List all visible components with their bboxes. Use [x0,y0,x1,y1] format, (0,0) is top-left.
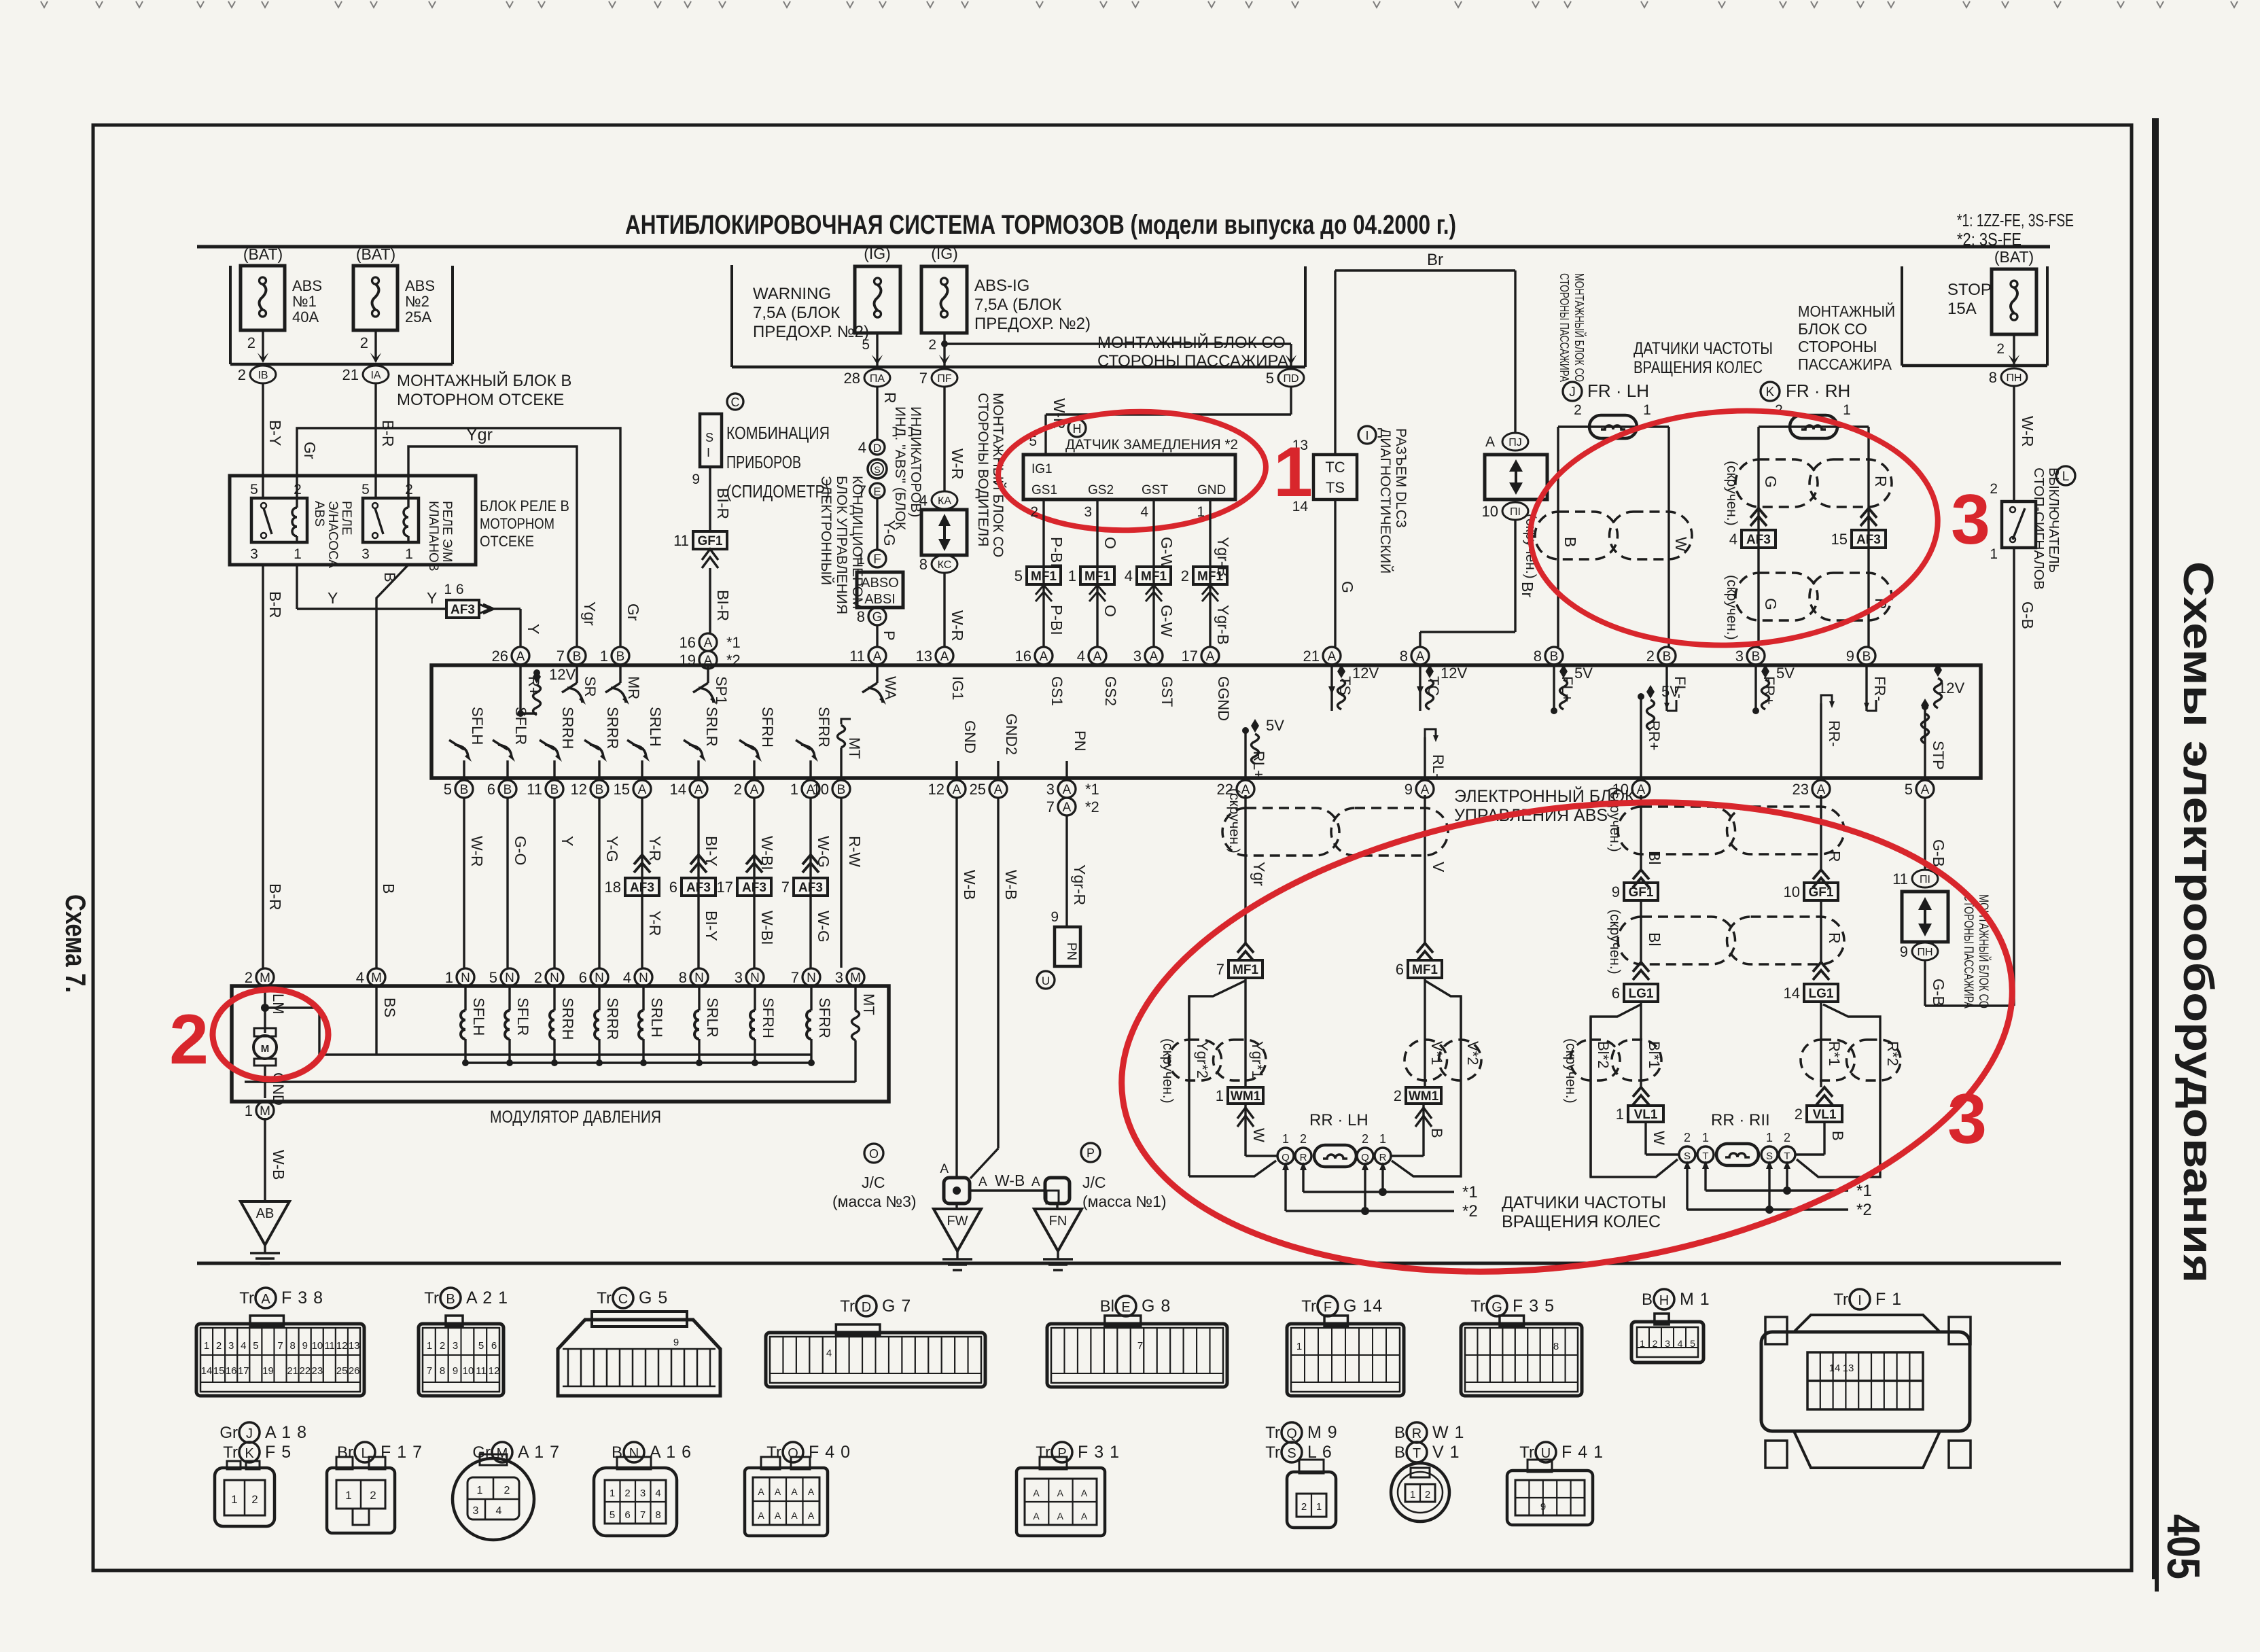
svg-text:СТОРОНЫ ПАССАЖИРА: СТОРОНЫ ПАССАЖИРА [1097,352,1288,370]
svg-text:B-Y: B-Y [266,420,284,446]
svg-text:4: 4 [826,1348,832,1359]
svg-text:GF1: GF1 [1629,885,1654,900]
svg-text:F 5: F 5 [265,1443,292,1462]
svg-text:O: O [788,1446,798,1461]
svg-text:GND: GND [961,720,978,754]
wire S1 down [709,467,711,531]
svg-text:A: A [808,1510,815,1521]
svg-text:Ygr*1: Ygr*1 [1249,1041,1266,1078]
svg-text:12: 12 [336,1340,348,1352]
svg-text:*1: 1ZZ-FE, 3S-FSE: *1: 1ZZ-FE, 3S-FSE [1957,210,2074,230]
svg-text:ПF: ПF [937,373,952,385]
svg-text:7: 7 [1137,1340,1143,1352]
driver block double arrow connector [921,510,967,555]
svg-text:LG1: LG1 [1629,987,1654,1001]
svg-text:12V: 12V [1352,665,1379,682]
svg-text:АНТИБЛОКИРОВОЧНАЯ СИСТЕМА ТОРМ: АНТИБЛОКИРОВОЧНАЯ СИСТЕМА ТОРМОЗОВ (моде… [625,210,1456,240]
svg-text:I: I [1858,1293,1862,1308]
svg-text:B-R: B-R [379,420,397,447]
page number underline [2155,1517,2159,1592]
svg-text:N: N [505,971,514,985]
svg-text:2: 2 [1653,1338,1658,1349]
svg-text:A: A [1421,783,1430,797]
twisted pair K lower [1735,573,1818,620]
svg-text:F 4 0: F 4 0 [809,1443,851,1462]
pressure modulator box [232,986,889,1102]
svg-text:10: 10 [813,781,829,798]
svg-text:Br: Br [337,1443,353,1462]
wire W-B GND [955,798,957,1178]
ECU top row transistors [576,665,578,683]
svg-text:Ygr*2: Ygr*2 [1194,1041,1211,1078]
svg-text:B: B [616,650,625,664]
svg-text:B: B [837,783,846,797]
svg-text:F 3 1: F 3 1 [1078,1443,1120,1462]
svg-text:WA: WA [882,676,899,700]
wire B-R from IA to relay [374,383,376,498]
svg-text:R: R [1412,1426,1422,1441]
svg-text:MF1: MF1 [1141,569,1167,584]
svg-text:W: W [1250,1128,1267,1142]
svg-text:3: 3 [1665,1338,1670,1349]
svg-text:G 7: G 7 [882,1297,911,1316]
svg-text:ABS: ABS [292,277,322,294]
svg-text:3: 3 [1735,648,1744,665]
svg-text:(скручен.): (скручен.) [1607,909,1623,974]
svg-text:*1: *1 [1462,1183,1478,1201]
svg-text:M: M [260,971,270,985]
svg-text:405: 405 [2157,1514,2209,1579]
stop lamp switch [2002,502,2036,548]
svg-text:L: L [361,1446,368,1461]
svg-text:1: 1 [1843,402,1851,418]
svg-text:ПJ: ПJ [1508,437,1522,449]
svg-text:W-B: W-B [961,870,978,900]
svg-text:2: 2 [245,969,253,986]
junction connector 15 AF3 on R wire [1860,508,1877,518]
wire W FR-LH right [1667,427,1670,647]
svg-text:7,5А (БЛОК: 7,5А (БЛОК [753,304,840,322]
svg-text:A: A [940,1162,949,1176]
svg-text:A: A [1150,650,1159,664]
svg-text:7: 7 [557,648,565,665]
svg-text:8: 8 [290,1340,296,1352]
svg-text:Схема 7.: Схема 7. [60,894,92,993]
svg-text:7: 7 [1216,961,1224,978]
svg-text:(скручен.): (скручен.) [1607,787,1623,852]
wire WARNING fuse to PA [876,333,878,366]
wire Y segment relay to AF3 [296,565,298,609]
svg-text:VL1: VL1 [1634,1108,1658,1122]
svg-text:Tr: Tr [424,1289,439,1307]
svg-text:A: A [704,636,713,650]
svg-text:8: 8 [1534,648,1542,665]
svg-text:МОТОРНОМ ОТСЕКЕ: МОТОРНОМ ОТСЕКЕ [397,391,564,409]
svg-text:W-BI: W-BI [758,911,776,945]
junction J/C ground 3 [864,1144,883,1163]
svg-text:Gr: Gr [624,603,642,621]
svg-text:G: G [1339,581,1356,593]
wire R from PA down [876,387,878,440]
modulator pins row [256,968,274,986]
svg-text:1: 1 [1990,546,1998,562]
svg-text:МОНТАЖНЫЙ: МОНТАЖНЫЙ [1798,302,1895,320]
svg-text:МОДУЛЯТОР ДАВЛЕНИЯ: МОДУЛЯТОР ДАВЛЕНИЯ [490,1108,661,1127]
svg-text:(масса №3): (масса №3) [832,1193,917,1210]
svg-text:A: A [791,1510,798,1521]
svg-text:N: N [629,1446,639,1461]
svg-text:6: 6 [624,1509,630,1521]
junction connector 11 GF1 [693,531,727,549]
ECU PN pins [1058,780,1076,798]
wire V RL- [1424,795,1426,945]
svg-text:U: U [1042,974,1050,987]
svg-text:ДИАГНОСТИЧЕСКИЙ: ДИАГНОСТИЧЕСКИЙ [1377,428,1394,574]
svg-text:MF1: MF1 [1197,569,1223,584]
svg-text:STP: STP [1930,741,1947,770]
svg-text:21: 21 [287,1365,298,1377]
svg-text:18: 18 [605,879,621,896]
connector pin 10(ПI) [1502,502,1528,520]
connector pin 28(ПА) [864,369,890,387]
svg-text:SFLH: SFLH [469,707,486,745]
svg-text:ВЫКЛЮЧАТЕЛЬ: ВЫКЛЮЧАТЕЛЬ [2046,468,2061,573]
svg-text:FR-: FR- [1871,676,1888,701]
svg-text:2: 2 [1030,504,1038,520]
svg-text:8: 8 [1400,648,1408,665]
svg-text:4: 4 [496,1505,502,1517]
svg-text:4: 4 [241,1340,246,1352]
svg-text:W-R: W-R [949,610,966,642]
svg-text:A: A [1057,1511,1064,1522]
svg-text:4: 4 [1125,567,1133,584]
svg-text:O: O [1101,605,1119,617]
svg-text:КОНДИЦИОНЕРОМ: КОНДИЦИОНЕРОМ [849,476,865,609]
svg-text:ПАССАЖИРА: ПАССАЖИРА [1798,355,1892,373]
svg-text:N: N [807,971,816,985]
svg-text:A: A [516,650,525,664]
svg-text:Bl: Bl [1646,932,1663,946]
ECU RL- pin [1424,737,1426,778]
svg-text:22: 22 [299,1365,311,1377]
svg-text:PN: PN [1064,943,1078,960]
svg-text:8: 8 [857,608,865,625]
svg-text:R*1: R*1 [1826,1041,1843,1066]
svg-text:W-B: W-B [1002,870,1020,900]
svg-text:IG1: IG1 [1031,462,1053,476]
svg-text:GS1: GS1 [1031,483,1057,497]
wire G FR-RH left [1757,427,1759,647]
svg-text:14: 14 [1784,985,1800,1002]
sensor J FR-LH [1563,382,1582,401]
svg-text:3: 3 [735,969,743,986]
svg-text:4: 4 [1140,504,1148,520]
svg-text:W-B: W-B [270,1150,287,1180]
svg-text:BI-R: BI-R [714,590,732,621]
svg-text:3: 3 [1046,781,1055,798]
svg-text:E: E [873,485,881,498]
right separator thick bar [2152,118,2159,1579]
svg-text:IA: IA [370,370,381,381]
svg-text:СТОРОНЫ ПАССАЖИРА: СТОРОНЫ ПАССАЖИРА [1557,273,1571,382]
svg-text:В: В [1642,1290,1653,1309]
svg-text:7,5А (БЛОК: 7,5А (БЛОК [974,296,1061,314]
ECU STP 12V resistor [1924,703,1926,778]
svg-text:BS: BS [381,998,398,1017]
svg-text:(скручен.): (скручен.) [1226,788,1242,854]
svg-text:ПН: ПН [2006,372,2021,384]
svg-text:SFLR: SFLR [512,707,529,745]
circle U [1037,971,1055,989]
svg-text:A 1 6: A 1 6 [650,1443,692,1462]
svg-text:16: 16 [226,1365,237,1377]
svg-text:4: 4 [858,439,866,456]
svg-text:11: 11 [527,781,542,798]
svg-text:N: N [461,971,470,985]
wire B relay2 to 4M [376,565,408,968]
svg-text:7: 7 [791,969,799,986]
RR-LH lower twisted pairs [1244,978,1246,1087]
svg-text:РЕЛЕ Э/М: РЕЛЕ Э/М [440,501,454,563]
svg-text:5V: 5V [1266,717,1284,734]
svg-text:A: A [1328,650,1337,664]
ECU RL+ 5V resistor [1244,731,1246,778]
svg-text:7: 7 [781,879,790,896]
svg-text:MF1: MF1 [1412,963,1438,977]
svg-text:Tr: Tr [1036,1443,1050,1462]
svg-text:A: A [994,783,1003,797]
svg-text:5: 5 [1905,781,1913,798]
svg-text:Gr: Gr [219,1424,238,1442]
svg-text:1: 1 [1068,567,1076,584]
wire FN ground [1056,1203,1058,1209]
svg-text:2: 2 [1300,1132,1307,1146]
wire R RR- upper [1820,795,1822,871]
pills middle RR [1640,900,1642,964]
svg-text:Bl*2: Bl*2 [1595,1041,1612,1068]
svg-text:Y: Y [427,589,437,607]
svg-text:B: B [1428,1128,1445,1138]
svg-text:ДАТЧИКИ ЧАСТОТЫ: ДАТЧИКИ ЧАСТОТЫ [1502,1193,1666,1212]
svg-text:26: 26 [492,648,508,665]
svg-text:17: 17 [1182,648,1198,665]
relay ABS pump relay R1 [251,498,307,542]
svg-text:1: 1 [245,1102,253,1119]
svg-text:F 1 7: F 1 7 [381,1443,423,1462]
junction connector 14 LG1 [1813,962,1829,972]
svg-text:5: 5 [1266,370,1274,387]
svg-text:2: 2 [370,1489,376,1502]
svg-text:GF1: GF1 [1809,885,1834,900]
modulator pin 1M and ground [256,1102,274,1119]
svg-text:P-BI: P-BI [1048,605,1065,635]
svg-text:Tr: Tr [840,1297,855,1316]
svg-text:Y-G: Y-G [881,520,898,546]
svg-text:A: A [1093,650,1102,664]
svg-text:12: 12 [571,781,587,798]
svg-text:25A: 25A [405,309,431,326]
svg-text:B: B [1561,537,1579,547]
svg-text:*1: *1 [1856,1182,1872,1200]
svg-text:M: M [371,971,382,985]
svg-text:SRLR: SRLR [703,707,720,747]
solenoid wire labels and jogs [463,798,465,968]
wire W-B between JC [970,1189,1045,1191]
svg-text:Bl*1: Bl*1 [1646,1041,1663,1068]
svg-text:*2: *2 [1856,1201,1872,1219]
svg-text:БЛОК СО: БЛОК СО [1798,320,1867,338]
svg-text:A: A [758,1486,764,1497]
svg-text:ABS: ABS [312,501,326,527]
svg-text:Q: Q [1286,1426,1297,1441]
svg-text:AF3: AF3 [630,881,654,895]
svg-text:12: 12 [928,781,944,798]
svg-text:G-W: G-W [1158,605,1176,637]
svg-text:Q: Q [1282,1152,1290,1163]
svg-text:A: A [775,1510,781,1521]
RR-RH outer box [1591,1050,1678,1177]
svg-text:5: 5 [1014,567,1023,584]
svg-text:2: 2 [534,969,542,986]
pins 16A*1 19A*2 [699,633,717,651]
svg-text:23: 23 [1793,781,1809,798]
svg-text:B-R: B-R [266,883,284,911]
svg-text:4: 4 [623,969,631,986]
svg-text:A 2 1: A 2 1 [466,1288,508,1307]
svg-text:A: A [750,783,759,797]
svg-text:N: N [550,971,559,985]
svg-text:M: M [260,1104,270,1119]
svg-text:2: 2 [360,334,368,351]
svg-text:Ygr: Ygr [466,425,493,444]
svg-text:Схемы электрооборудования: Схемы электрооборудования [2174,561,2221,1283]
svg-text:G-B: G-B [1930,839,1947,867]
svg-text:RR+: RR+ [1646,720,1663,751]
svg-text:M 1: M 1 [1680,1290,1710,1309]
svg-text:16: 16 [1015,648,1031,665]
svg-text:15: 15 [213,1365,225,1377]
svg-text:R-W: R-W [846,836,864,867]
ECU RR- pin [1820,703,1822,778]
wire W-R to stop switch [2013,386,2015,502]
red ellipse 3 top [1524,401,1943,656]
svg-text:1: 1 [1379,1132,1386,1146]
svg-text:БЛОК УПРАВЛЕНИЯ: БЛОК УПРАВЛЕНИЯ [834,476,849,614]
svg-text:SRRR: SRRR [604,707,621,749]
svg-text:ЭЛЕКТРОННЫЙ: ЭЛЕКТРОННЫЙ [818,476,834,585]
svg-text:1: 1 [1766,1131,1773,1144]
svg-text:W-B: W-B [995,1172,1025,1189]
svg-text:Tr: Tr [597,1289,612,1307]
svg-text:G: G [1762,598,1780,610]
svg-text:6: 6 [491,1340,497,1352]
svg-text:K: K [1766,385,1775,400]
svg-text:6: 6 [579,969,587,986]
wire STOP fuse to PH [2013,334,2015,364]
svg-text:T: T [1702,1150,1708,1162]
ECU top pins row [512,647,529,665]
wire R FR-RH right [1867,427,1869,647]
svg-text:Bl: Bl [1646,851,1663,864]
svg-text:MF1: MF1 [1031,569,1057,584]
svg-text:12: 12 [489,1365,500,1377]
svg-text:B-R: B-R [266,591,284,618]
svg-text:1: 1 [1197,504,1205,520]
svg-text:ДАТЧИКИ ЧАСТОТЫ: ДАТЧИКИ ЧАСТОТЫ [1634,339,1773,358]
svg-text:N: N [595,971,604,985]
svg-text:25: 25 [970,781,986,798]
svg-text:9: 9 [1405,781,1413,798]
svg-text:A: A [1416,650,1425,664]
svg-text:B: B [380,883,398,894]
svg-text:Q: Q [1361,1152,1369,1163]
pin 4(КА) [932,491,957,509]
svg-text:СТОРОНЫ ПАССАЖИРА: СТОРОНЫ ПАССАЖИРА [1961,894,1975,1008]
junction connector 10 GF1 [1813,870,1829,879]
junction connector 9 GF1 [1633,870,1649,879]
svg-text:13: 13 [1843,1363,1854,1374]
svg-text:A: A [1637,783,1646,797]
svg-text:MF1: MF1 [1084,569,1110,584]
svg-text:2: 2 [734,781,742,798]
svg-text:2: 2 [1795,1106,1803,1123]
svg-text:O: O [869,1147,879,1161]
svg-text:1: 1 [1643,402,1651,418]
fuse ABS-IG 7.5A [921,266,967,333]
svg-text:9: 9 [1050,909,1059,925]
svg-text:Y-R: Y-R [646,836,664,862]
svg-text:9: 9 [1612,883,1620,900]
svg-text:SRLH: SRLH [647,707,664,747]
svg-text:FR · LH: FR · LH [1587,381,1649,401]
svg-text:D: D [862,1300,871,1315]
svg-text:3: 3 [228,1340,234,1352]
svg-text:IB: IB [258,370,268,381]
modulator solenoid coils [464,986,466,1010]
svg-text:МОНТАЖНЫЙ БЛОК СО: МОНТАЖНЫЙ БЛОК СО [1572,273,1587,382]
junction connectors MF1 row [1027,567,1061,584]
wire Br PI to TC pin [1514,520,1516,632]
svg-text:A: A [1485,434,1495,450]
svg-text:РЕЛЕ: РЕЛЕ [339,501,353,535]
ECU bottom row transistors and pins [455,780,473,798]
wire W-R PD to sensor [1290,387,1292,415]
svg-text:F: F [1324,1300,1332,1315]
wire Ygr-R PN [1065,815,1067,927]
svg-text:GST: GST [1159,676,1176,707]
svg-text:13: 13 [349,1340,360,1352]
svg-text:S: S [1766,1150,1773,1162]
svg-text:B: B [446,1292,455,1307]
svg-text:RR · LH: RR · LH [1309,1111,1369,1129]
svg-text:13: 13 [916,648,932,665]
svg-text:В: В [1394,1443,1405,1462]
svg-text:A: A [1033,1488,1040,1498]
svg-text:S: S [1684,1150,1691,1162]
svg-text:7: 7 [277,1340,283,1352]
svg-text:V: V [1430,862,1447,873]
svg-text:R: R [1379,1152,1387,1163]
svg-text:2: 2 [1684,1131,1691,1144]
svg-text:A: A [1031,1175,1040,1189]
svg-text:ABSI: ABSI [864,592,896,607]
svg-text:A 1 7: A 1 7 [518,1443,560,1462]
svg-text:S: S [1287,1446,1296,1461]
svg-text:M: M [850,971,861,985]
ECU MT resistor pin 10B [832,780,850,798]
junction J/C ground 1 [1045,1178,1070,1203]
svg-text:K: K [245,1446,254,1461]
